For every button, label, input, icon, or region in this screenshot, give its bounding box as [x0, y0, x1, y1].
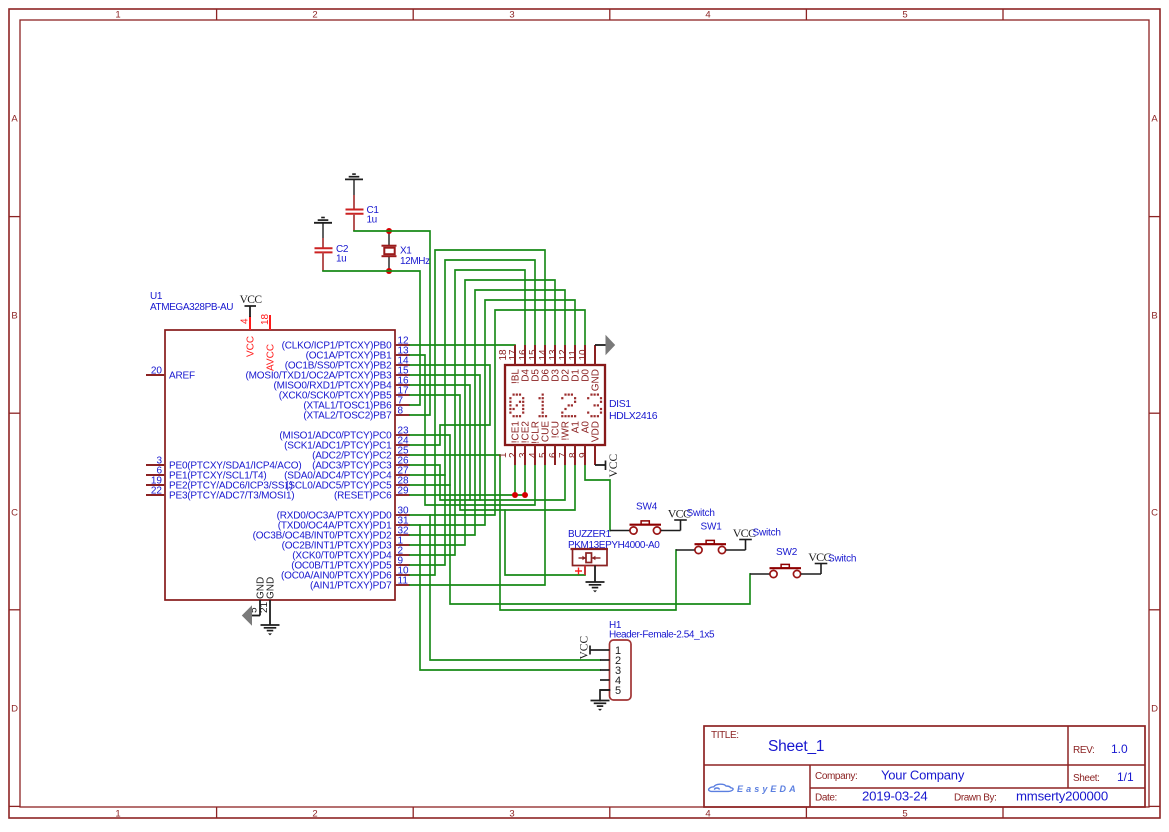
ground (earth) above C2	[314, 218, 332, 239]
wire PC6 to DIS1 !CE1/!CE2	[410, 494, 525, 496]
svg-text:X1: X1	[400, 246, 412, 257]
DIS1 bottom pin 5 !CU	[538, 421, 561, 465]
svg-text:18: 18	[260, 313, 271, 325]
svg-text:Date:: Date:	[815, 793, 837, 804]
wire PB4 to DIS1 !WR	[410, 385, 565, 500]
svg-text:A: A	[11, 114, 18, 125]
svg-text:Sheet_1: Sheet_1	[768, 738, 824, 755]
wire C1 to PB7 net	[354, 231, 430, 415]
display DIS1 HDLX2416	[505, 365, 658, 445]
DIS1 top pin 15 D6	[528, 345, 551, 382]
U1 right pin 12 (CLKO/ICP1/PTCXY)PB0	[282, 336, 410, 352]
wire C2/X1 to PB6 net	[323, 271, 420, 405]
title block REV field	[1073, 742, 1128, 756]
U1 right pin 13 (OC1A/PTCXY)PB1	[306, 346, 410, 362]
U1 right pin 28 (SCL0/ADC5/PTCY)PC5	[285, 476, 410, 492]
buzzer BUZZER1 symbol	[571, 549, 609, 582]
svg-text:(XTAL2/TOSC2)PB7: (XTAL2/TOSC2)PB7	[303, 411, 392, 422]
svg-text:20: 20	[151, 366, 163, 377]
U1 right pin 9 (OC0B/T1/PTCXY)PD5	[291, 556, 410, 572]
svg-text:B: B	[1151, 311, 1157, 322]
svg-text:GND: GND	[266, 577, 277, 599]
wire PB3 to WR net	[410, 375, 480, 500]
ground (earth) below BUZZER1	[586, 582, 605, 592]
wire PC4 stub	[410, 474, 445, 476]
DIS1 bottom pin 4 CUE	[528, 421, 551, 465]
svg-text:DIS1: DIS1	[609, 398, 631, 410]
svg-text:1u: 1u	[336, 254, 346, 265]
svg-text:(AIN1/PTCXY)PD7: (AIN1/PTCXY)PD7	[310, 581, 392, 592]
power flag VCC at SW1	[733, 526, 756, 540]
svg-text:VDD: VDD	[591, 421, 602, 442]
buzzer BUZZER1 PKM13EPYH4000-A0	[568, 529, 660, 551]
svg-text:ATMEGA328PB-AU: ATMEGA328PB-AU	[150, 302, 233, 313]
DIS1 top pin 10 GND	[578, 345, 601, 391]
wire PD4 to DIS1 D4	[410, 270, 525, 555]
DIS1 top pin 13 D2	[548, 345, 571, 382]
U1 right pin 8 (XTAL2/TOSC2)PB7	[303, 406, 410, 422]
title block Company field	[815, 768, 965, 783]
svg-text:AREF: AREF	[169, 371, 195, 382]
svg-text:SW4: SW4	[636, 502, 658, 513]
svg-text:21: 21	[259, 601, 270, 613]
svg-text:D: D	[11, 704, 18, 715]
U1 right pin 10 (OC0A/AIN0/PTCXY)PD6	[281, 566, 410, 582]
DIS1 top pin 12 D1	[558, 345, 581, 382]
wire SW1 left lead	[676, 549, 695, 551]
svg-text:C: C	[11, 508, 18, 519]
power flag VCC at DIS1 pin 9 VDD	[595, 454, 620, 478]
svg-text:TITLE:: TITLE:	[711, 730, 739, 741]
svg-text:Switch: Switch	[687, 508, 715, 519]
node: junction X1 bottom / C2	[386, 268, 392, 274]
svg-text:9: 9	[578, 452, 589, 458]
U1 top pin 4 VCC	[240, 316, 257, 357]
H1 pin 2	[600, 655, 621, 667]
ground flag (arrow) at U1 pin 5	[243, 607, 261, 625]
DIS1 bottom pin 6 !WR	[548, 421, 571, 465]
wire PD3 to DIS1 D3	[410, 280, 555, 545]
node: junction PC6/!CE1	[512, 492, 518, 498]
svg-text:12MHz: 12MHz	[400, 256, 430, 267]
node: junction X1 top / C1	[386, 228, 392, 234]
U1 right pin 17 (XCK0/SCK0/PTCXY)PB5	[279, 386, 410, 402]
svg-text:C: C	[1151, 508, 1158, 519]
H1 pin 3	[600, 665, 621, 677]
ground (earth) below H1	[591, 701, 610, 711]
svg-text:2: 2	[312, 809, 317, 820]
svg-text:VCC: VCC	[608, 454, 620, 478]
U1 top pin 18 AVCC	[260, 313, 277, 371]
svg-text:GND: GND	[591, 369, 602, 391]
svg-text:REV:: REV:	[1073, 745, 1094, 756]
DIS1 top pin 14 D3	[538, 345, 561, 382]
wire PD6 to DIS1 D6	[410, 250, 545, 575]
svg-text:2019-03-24: 2019-03-24	[862, 789, 927, 804]
svg-text:1: 1	[115, 809, 120, 820]
U1 right pin 1 (OC2B/INT1/PTCXY)PD3	[282, 536, 410, 552]
DIS1 digit display 0123	[509, 394, 602, 418]
svg-text:Sheet:: Sheet:	[1073, 773, 1100, 784]
wire SW4 right lead to VCC	[661, 520, 681, 531]
wire PB2 to PC1	[410, 365, 490, 445]
svg-text:SW1: SW1	[701, 522, 723, 533]
wire H1 pin 5 to ground	[600, 690, 610, 701]
wire PB5 to DIS1 A1	[410, 395, 575, 510]
svg-text:1.0: 1.0	[1111, 742, 1128, 756]
svg-text:22: 22	[151, 486, 163, 497]
svg-text:Header-Female-2.54_1x5: Header-Female-2.54_1x5	[609, 630, 715, 641]
svg-text:HDLX2416: HDLX2416	[609, 410, 658, 422]
U1 right pin 7 (XTAL1/TOSC1)PB6	[303, 396, 410, 412]
DIS1 bottom pin 1 !CE1	[498, 421, 521, 465]
U1 right pin 25 (ADC2/PTCY)PC2	[312, 446, 410, 462]
wire PD0 to DIS1 D0	[410, 310, 585, 515]
U1 right pin 11 (AIN1/PTCXY)PD7	[310, 576, 410, 592]
transistor SW4 pushbutton switch	[630, 502, 662, 535]
U1 left pin 22 PE3(PTCY/ADC7/T3/MOSI1)	[146, 486, 294, 502]
svg-text:5: 5	[615, 685, 621, 697]
wire DIS1 pin2 drop	[524, 465, 526, 495]
svg-text:10: 10	[578, 349, 589, 361]
svg-text:1u: 1u	[367, 215, 377, 226]
svg-text:VCC: VCC	[240, 294, 263, 306]
wire DIS1 pin1 drop	[514, 465, 516, 495]
svg-text:SW2: SW2	[776, 547, 798, 558]
wire PD5 to DIS1 D5	[410, 260, 535, 565]
wire SW2 left lead	[750, 573, 770, 575]
svg-text:Your Company: Your Company	[881, 768, 965, 783]
svg-text:3: 3	[509, 10, 514, 21]
svg-text:(RESET)PC6: (RESET)PC6	[334, 491, 392, 502]
svg-text:D: D	[1151, 704, 1158, 715]
svg-text:mmserty200000: mmserty200000	[1016, 789, 1108, 804]
U1 right pin 31 (TXD0/OC4A/PTCXY)PD1	[278, 516, 410, 532]
svg-text:EasyEDA: EasyEDA	[737, 784, 799, 794]
wire SW4 left lead	[610, 530, 630, 532]
op-amp U1 ATMEGA328PB-AU	[150, 291, 395, 600]
wire H1 pin2 to PD0	[430, 515, 600, 660]
svg-text:Company:: Company:	[815, 771, 857, 782]
svg-text:5: 5	[902, 809, 907, 820]
capacitor C2 1u	[315, 238, 349, 271]
connector H1 Header-Female-2.54_1x5	[609, 620, 715, 700]
svg-text:1: 1	[115, 10, 120, 21]
U1 right pin 15 (MOSI0/TXD1/OC2A/PTCXY)PB3	[246, 366, 410, 382]
svg-text:5: 5	[902, 10, 907, 21]
svg-text:4: 4	[705, 10, 710, 21]
power flag VCC at SW4	[668, 507, 691, 521]
title block Sheet field	[1073, 770, 1134, 784]
svg-text:29: 29	[398, 486, 410, 497]
H1 pin 5	[600, 685, 621, 697]
svg-text:VCC: VCC	[246, 336, 257, 357]
wire SW2 right lead to VCC	[801, 564, 821, 575]
power flag VCC at SW2	[808, 550, 831, 564]
wire buzzer drive	[505, 510, 585, 575]
svg-text:2: 2	[312, 10, 317, 21]
svg-text:Switch: Switch	[828, 554, 856, 565]
wire PB0 to DIS1 !BL	[410, 344, 515, 346]
DIS1 bottom pin 2 !CE2	[508, 421, 531, 465]
wire PB1 to DIS1 !CLR	[410, 355, 535, 505]
svg-text:B: B	[11, 311, 17, 322]
EasyEDA logo	[709, 784, 799, 794]
svg-text:AVCC: AVCC	[266, 344, 277, 371]
U1 right pin 16 (MISO0/RXD1/PTCXY)PB4	[273, 376, 410, 392]
svg-text:PE3(PTCY/ADC7/T3/MOSI1): PE3(PTCY/ADC7/T3/MOSI1)	[169, 491, 294, 502]
U1 right pin 27 (SDA0/ADC4/PTCY)PC4	[284, 466, 410, 482]
DIS1 top pin 18 !BL	[498, 345, 521, 384]
title block TITLE field	[711, 730, 824, 755]
wire H1 pin3 to PD1	[420, 525, 600, 670]
wire A0 to SW4	[585, 465, 610, 531]
wire SW1 right lead to VCC	[726, 540, 746, 551]
svg-text:4: 4	[705, 809, 710, 820]
DIS1 bottom pin 7 A1	[558, 421, 581, 465]
svg-text:A: A	[1151, 114, 1158, 125]
node: junction PC6/!CE2	[522, 492, 528, 498]
svg-text:VCC: VCC	[579, 636, 591, 660]
svg-text:U1: U1	[150, 291, 163, 302]
ground flag (arrow) at DIS1 pin 10	[595, 336, 615, 354]
U1 right pin 32 (OC3B/OC4B/INT0/PTCXY)PD2	[253, 526, 410, 542]
DIS1 bottom pin 9 VDD	[578, 421, 601, 465]
U1 right pin 29 (RESET)PC6	[334, 486, 410, 502]
wire PC3 stub	[410, 465, 470, 500]
U1 left pin 6 PE1(PTCXY/SCL1/T4)	[146, 466, 267, 482]
svg-text:8: 8	[398, 406, 404, 417]
DIS1 bottom pin 3 !CLR	[518, 421, 541, 465]
H1 pin 1	[600, 645, 621, 657]
power flag VCC at H1 pin 1	[579, 636, 601, 660]
wire PD1 to DIS1 D1	[410, 300, 575, 525]
wire PD7 to DIS1 CUE	[410, 465, 545, 585]
U1 right pin 2 (XCK0/T0/PTCXY)PD4	[292, 546, 410, 562]
svg-text:Switch: Switch	[753, 528, 781, 539]
U1 right pin 26 (ADC3/PTCY)PC3	[312, 456, 410, 472]
DIS1 top pin 11 D0	[568, 345, 591, 382]
transistor SW2 pushbutton switch	[770, 547, 802, 578]
title block Date field	[815, 789, 1108, 804]
svg-text:3: 3	[509, 809, 514, 820]
U1 right pin 24 (SCK1/ADC1/PTCY)PC1	[284, 436, 410, 452]
U1 left pin 19 PE2(PTCY/ADC6/ICP3/SS1)	[146, 476, 293, 492]
U1 left pin 20 AREF	[146, 366, 195, 382]
wire PD2 to DIS1 D2	[410, 290, 565, 535]
DIS1 top pin 16 D5	[518, 345, 541, 382]
DIS1 bottom pin 8 A0	[568, 421, 591, 465]
U1 bottom pin 21 GND	[259, 577, 277, 625]
ground (earth) above C1	[345, 174, 363, 195]
svg-text:Drawn By:: Drawn By:	[954, 793, 997, 804]
U1 bottom pin 5 GND	[249, 577, 267, 616]
U1 right pin 23 (MISO1/ADC0/PTCY)PC0	[279, 426, 410, 442]
capacitor C1 1u	[346, 195, 380, 231]
svg-text:1/1: 1/1	[1117, 770, 1134, 784]
H1 pin 4	[600, 675, 621, 687]
ground (earth) at U1 pin 21	[261, 625, 280, 635]
U1 right pin 14 (OC1B/SS0/PTCXY)PB2	[285, 356, 410, 372]
U1 left pin 3 PE0(PTCXY/SDA1/ICP4/ACO)	[146, 456, 301, 472]
wire PC5 stub	[410, 484, 450, 486]
title block	[704, 726, 1145, 807]
svg-text:BUZZER1: BUZZER1	[568, 529, 612, 540]
transistor SW1 pushbutton switch	[695, 522, 727, 554]
crystal X1 12MHz	[382, 231, 431, 271]
wire PC0 to SW2	[410, 435, 750, 604]
svg-text:11: 11	[398, 576, 409, 587]
DIS1 top pin 17 D4	[508, 345, 531, 382]
svg-text:4: 4	[240, 318, 251, 324]
wire PC2 to SW1	[410, 455, 676, 610]
U1 right pin 30 (RXD0/OC3A/PTCXY)PD0	[277, 506, 410, 522]
power flag VCC above U1	[240, 294, 263, 317]
